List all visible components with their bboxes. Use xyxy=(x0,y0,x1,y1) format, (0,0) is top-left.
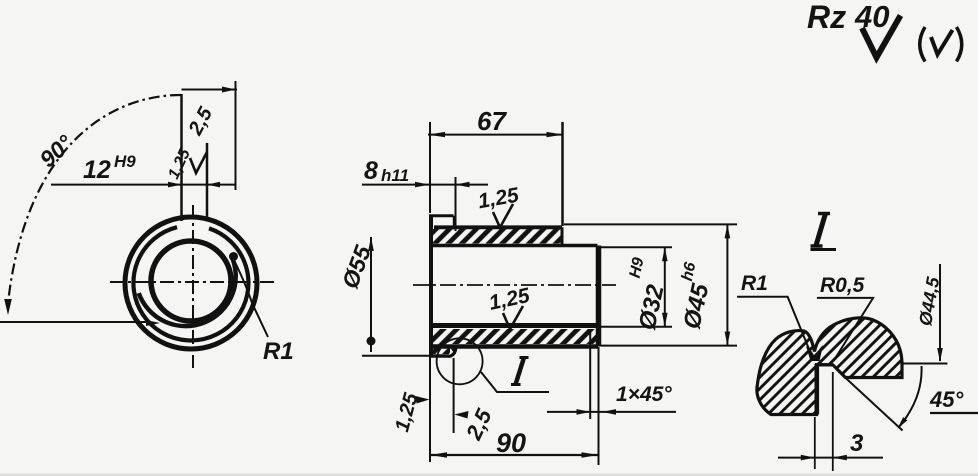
big check xyxy=(862,16,901,58)
O32 dim line xyxy=(664,247,666,326)
hatch flange bottom xyxy=(433,344,450,354)
keyway end step xyxy=(561,227,564,245)
svg-text:1,25: 1,25 xyxy=(165,145,194,181)
svg-text:8: 8 xyxy=(364,157,378,185)
hatch bottom band xyxy=(433,329,598,344)
body bottom line xyxy=(433,344,598,349)
dim line 12H9 xyxy=(51,184,236,186)
svg-text:H9: H9 xyxy=(627,256,648,280)
horizontal centerline xyxy=(110,281,276,283)
ext lines 3 xyxy=(814,417,816,469)
dim line 90 xyxy=(430,454,599,456)
svg-text:2,5: 2,5 xyxy=(184,103,217,140)
keyway right line xyxy=(206,143,209,219)
extension groove x453 xyxy=(453,358,455,433)
svg-text:R1: R1 xyxy=(741,272,768,295)
dim line 8h11 xyxy=(362,184,488,186)
O44,5 dim line xyxy=(939,264,941,361)
svg-text:90: 90 xyxy=(496,428,526,458)
svg-text:90°: 90° xyxy=(34,129,78,172)
svg-text:2,5: 2,5 xyxy=(461,405,497,445)
flange step xyxy=(453,216,456,228)
svg-text:1,25: 1,25 xyxy=(487,284,532,315)
valley fillet wedge xyxy=(806,345,823,361)
dim line 67 xyxy=(428,134,564,136)
svg-text:1×45°: 1×45° xyxy=(616,383,672,406)
O32 extension top xyxy=(598,246,672,248)
scan edge bottom xyxy=(0,474,978,476)
top dim line 2,5 xyxy=(182,89,238,91)
label I section xyxy=(516,358,525,385)
label O55 rotated xyxy=(337,241,377,292)
detail leader xyxy=(481,372,549,392)
outer circle O55 xyxy=(125,217,257,349)
hatch top band xyxy=(433,229,561,244)
svg-text:67: 67 xyxy=(477,106,507,136)
svg-text:R1: R1 xyxy=(263,338,294,365)
end face xyxy=(596,246,602,347)
flange bottom xyxy=(431,354,449,358)
svg-text:R0,5: R0,5 xyxy=(820,274,865,297)
O55 dim line xyxy=(370,237,372,352)
label O45 h6 rotated xyxy=(679,281,715,332)
bore circle O32 xyxy=(151,241,231,321)
groove arc R1 xyxy=(449,347,457,357)
extension line x430 upper xyxy=(429,122,431,213)
svg-text:45°: 45° xyxy=(929,387,963,412)
chamfer arc xyxy=(139,255,236,326)
roughness 1,25 top xyxy=(476,184,521,214)
svg-text:12: 12 xyxy=(83,156,111,184)
ref line 45deg xyxy=(930,412,978,414)
R1 leader left view xyxy=(234,260,268,337)
O45 extension top xyxy=(564,223,737,225)
extension line x455 xyxy=(455,177,457,231)
O45 dim line xyxy=(726,224,728,345)
tangent line bottom left xyxy=(0,321,150,323)
svg-text:1,25: 1,25 xyxy=(476,184,521,214)
90deg dash-dot arc xyxy=(8,95,181,303)
parenthetical check xyxy=(920,27,925,62)
flange left edge xyxy=(429,215,433,357)
junction blob xyxy=(229,252,238,261)
chamfer dim line xyxy=(547,411,676,413)
flange top xyxy=(429,214,454,217)
extension O44,5 xyxy=(903,363,947,365)
O45 extension bottom xyxy=(601,345,737,347)
O32 extension bottom xyxy=(599,326,672,328)
keyway left line xyxy=(180,94,183,221)
roughness check keyway xyxy=(190,152,207,173)
45deg diagonal xyxy=(837,370,903,431)
groove blob xyxy=(450,346,456,354)
extension line x235 xyxy=(235,81,237,190)
detail outline hatched xyxy=(757,318,902,415)
label I detail xyxy=(816,214,826,246)
chamfer extension xyxy=(589,330,591,419)
callout 2,5 bottom xyxy=(461,405,497,445)
slot left edge thick xyxy=(814,364,819,415)
45deg arc xyxy=(899,366,922,427)
end face extension down xyxy=(598,347,600,465)
bore top line xyxy=(433,244,598,248)
extension line x562 xyxy=(561,122,564,226)
svg-text:40: 40 xyxy=(854,0,889,34)
label O44,5 rotated xyxy=(915,275,943,328)
label 2,5 rotated xyxy=(184,103,217,140)
bore bottom line xyxy=(433,323,598,328)
roughness 1,25 bottom xyxy=(487,284,532,315)
second circle O45 with keyway gap at top xyxy=(133,227,248,340)
svg-text:h11: h11 xyxy=(381,166,409,185)
O55 extension xyxy=(362,355,430,357)
dim line 3 xyxy=(778,457,883,459)
extension line x430 lower xyxy=(429,356,431,462)
svg-text:Ø45: Ø45 xyxy=(679,281,715,332)
vertical centerline xyxy=(192,205,194,368)
svg-text:Rz: Rz xyxy=(807,0,846,35)
label O32 H9 rotated xyxy=(634,282,670,333)
svg-text:h6: h6 xyxy=(679,261,700,283)
label 1,25 small rotated xyxy=(165,145,194,181)
axis centerline xyxy=(413,284,616,286)
callout 1,25 bottom left xyxy=(391,390,423,434)
label 90deg xyxy=(34,129,78,172)
svg-text:H9: H9 xyxy=(114,152,136,171)
slot top edge xyxy=(815,363,833,366)
detail circle I xyxy=(437,338,483,384)
keyway slot bottom line xyxy=(434,225,562,229)
svg-text:3: 3 xyxy=(850,430,864,457)
